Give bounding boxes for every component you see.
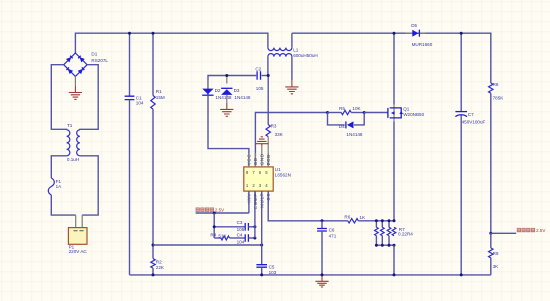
wire aux node down to R3 [267,76,269,125]
wire top rail from bridge to L1 [75,33,268,53]
resistor R6 1K [348,219,359,223]
svg-text:33K: 33K [275,132,284,137]
svg-text:2.5V: 2.5V [215,208,224,213]
wire MULT pin down [261,191,263,245]
U1 pin leads bottom [249,191,268,205]
wire COMP pin down [254,191,256,238]
svg-text:R4: R4 [210,232,216,237]
transformer T1 left winding [67,130,70,156]
ground bottom rail [321,275,323,281]
wire Q1 source down [393,122,395,221]
svg-text:0.22R4: 0.22R4 [398,232,413,237]
svg-text:L1: L1 [293,48,299,53]
bridge rectifier D1 diamond [64,53,87,76]
wire L1 aux left lead [267,57,269,76]
resistor R7d [392,227,396,235]
svg-text:1N4148: 1N4148 [215,95,232,100]
wire GD pin to gate network [255,113,327,168]
node R5 right [363,111,366,114]
resistor R5 10K [328,112,342,114]
svg-text:MUR1660: MUR1660 [412,42,433,47]
svg-text:R9: R9 [493,251,499,256]
bridge diode bottom-left [68,69,73,74]
resistor R2 22K [152,245,154,259]
bridge diode bottom-right [78,69,83,74]
wire gate to Q1 [364,112,388,114]
capacitor C3 branch [214,226,245,228]
transformer T1 right winding [77,130,80,156]
svg-text:471: 471 [329,233,337,238]
capacitor C6 471 [321,221,323,229]
svg-text:D2: D2 [215,88,221,93]
svg-text:R3: R3 [271,124,277,129]
svg-text:Q1: Q1 [403,106,410,111]
svg-text:0.1uH: 0.1uH [67,157,79,162]
fuse F1 [48,178,54,195]
diode D3 1N4148 [226,76,228,84]
node feedback divider [489,232,492,235]
resistor R3 33K [266,125,270,137]
svg-text:W20NB50: W20NB50 [403,112,424,117]
node MULT C5 [260,244,263,247]
resistor R7b [381,221,383,228]
capacitor C2 [257,71,260,80]
node C3 right [253,225,256,228]
resistor R7c [388,221,390,228]
net label feedback 2.5V right [517,228,521,232]
nodes R7 bank top [375,219,378,222]
svg-text:D1: D1 [91,52,97,57]
op-amp U1 L6562N controller [244,167,273,191]
diode D2 1N4148 [202,89,213,95]
inductor L1 aux winding [268,54,292,57]
wire CS pin to sense node [268,191,348,221]
svg-text:U1: U1 [275,167,281,172]
svg-text:10K: 10K [352,106,361,111]
bridge diode top-left [66,57,71,62]
svg-text:GD: GD [253,157,258,165]
wire charge pump node [208,76,256,96]
wire INV pin to feedback stub [248,191,250,213]
svg-text:105: 105 [256,86,264,91]
svg-text:220V AC: 220V AC [69,249,88,254]
wire T1 left winding to fuse [51,156,66,178]
capacitor C5 103 [261,245,263,265]
node C6 bottom rail [321,273,324,276]
svg-text:D3: D3 [234,88,240,93]
svg-text:R6: R6 [344,214,350,219]
svg-text:600uH50uH: 600uH50uH [293,53,318,58]
node Q1 drain rail [393,32,396,35]
svg-text:C2: C2 [255,66,261,71]
inductor L1 main winding [268,48,292,51]
node R1 top [152,32,155,35]
node aux C2 junction [267,74,270,77]
wire D3 to ground [226,95,228,103]
resistor R9 3K [490,233,492,248]
svg-text:1A: 1A [56,184,63,189]
wire R7 bank bottom [376,244,394,246]
svg-text:C4: C4 [237,233,243,238]
ground GND pin inverted [261,144,263,146]
wire T1 right winding to plug P1 pin 2 [80,156,98,215]
svg-text:3K: 3K [493,264,500,269]
svg-text:GND: GND [259,153,264,165]
resistor R1 [152,33,154,95]
capacitor C7 electrolytic [460,33,462,111]
wire VCC supply from D2 [208,95,249,167]
svg-text:VCC: VCC [247,154,252,166]
svg-text:104: 104 [136,101,144,106]
svg-text:T1: T1 [67,123,73,128]
node D3 top [225,74,228,77]
svg-text:105: 105 [237,227,245,232]
node C7 bottom rail [460,273,463,276]
ground below bridge [74,76,76,86]
svg-text:C6: C6 [329,227,335,232]
svg-text:1K: 1K [359,215,366,220]
wire bottom ground rail [130,274,491,276]
node C6 top [321,219,324,222]
ground D3 [220,109,233,116]
nodes R7 bank bottom [375,244,378,247]
svg-text:2.5V: 2.5V [536,228,545,233]
ground L1 aux [285,87,298,94]
wire bridge right arm down to T1 [80,65,98,130]
svg-text:D5: D5 [411,23,417,28]
capacitor C1 [129,33,131,96]
svg-text:15M: 15M [156,95,165,100]
node C1 top [128,32,131,35]
node C3 left [213,225,216,228]
svg-text:ZCD: ZCD [266,154,271,165]
resistor R4 51K and C4 branch [214,237,221,239]
svg-text:R1: R1 [156,89,162,94]
svg-text:785K: 785K [493,95,505,100]
wire top rail from L1 to output corner [292,33,491,83]
wire feedback stub right [491,232,516,234]
node source rail [393,273,396,276]
node comp network left top [213,212,216,215]
connector P1 220V AC [68,228,87,245]
svg-text:C3: C3 [237,220,243,225]
svg-text:R8: R8 [493,82,499,87]
svg-text:C7: C7 [468,112,474,117]
svg-text:R5: R5 [339,106,345,111]
svg-text:1N4148: 1N4148 [346,132,363,137]
bridge diode top-right [79,57,84,62]
svg-text:103: 103 [269,270,277,275]
wire fuse to plug P1 pin 1 [51,195,75,215]
wire Q1 drain to rail [393,33,395,104]
svg-text:1N4148: 1N4148 [234,95,251,100]
node R5 left [326,111,329,114]
wire MULT net [153,244,262,246]
svg-text:L6562N: L6562N [275,173,291,178]
node R2 top [152,244,155,247]
resistor R7a [375,221,377,228]
wire comp network left vertical [213,213,215,238]
node C7 top [460,32,463,35]
node C5 bottom rail [260,273,263,276]
net label feedback 2.5V left [196,208,200,212]
wire bridge left arm down to T1 [51,65,66,130]
node R2 bottom rail [152,273,155,276]
wire L1 right lead to rail [291,33,293,47]
svg-text:RS207L: RS207L [91,58,108,63]
wire R7 bank top [376,220,394,222]
node R4C4 right [253,237,256,240]
svg-text:51K: 51K [218,233,227,238]
svg-text:D4: D4 [339,124,345,129]
U1 pin leads top [249,146,268,167]
diode D4 branch [328,113,345,125]
svg-text:22K: 22K [156,265,165,270]
svg-text:450V100uF: 450V100uF [462,119,486,124]
svg-text:104: 104 [237,239,245,244]
diode D5 MUR1660 [406,32,426,34]
resistor R8 785K [490,82,492,84]
diode D4 1N4148 [347,121,354,128]
transistor Q1 W20NB50 [393,105,395,122]
wire source node to rail [393,245,395,275]
wire L1 aux right lead to ground [291,57,293,80]
